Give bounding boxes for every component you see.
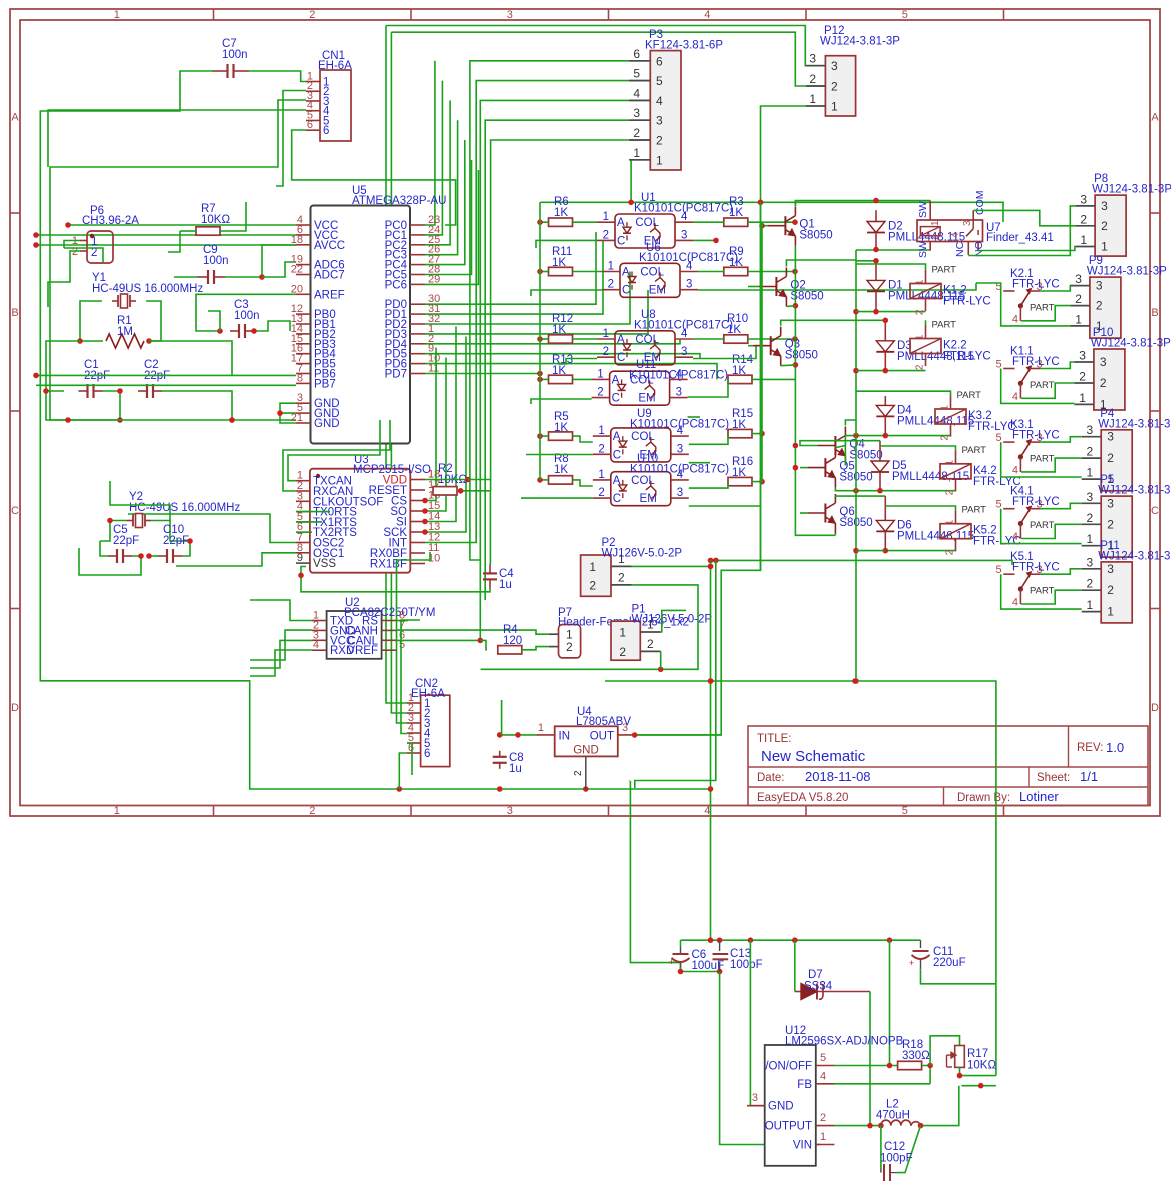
wire: [501, 700, 503, 735]
IC U3 MCP2515-I/SO: [310, 469, 410, 573]
wire: [151, 521, 190, 542]
wire: [36, 384, 296, 386]
wire: [425, 160, 472, 275]
wire: [540, 479, 549, 481]
optocoupler U1: [615, 214, 675, 248]
wire: [558, 359, 597, 365]
wire: [1001, 442, 1082, 477]
svg-text:2: 2: [603, 229, 609, 241]
svg-text:8: 8: [297, 372, 303, 384]
capacitor C10: [158, 555, 167, 557]
svg-text:3: 3: [681, 346, 687, 358]
wire: [536, 240, 597, 248]
resistor R7: [196, 227, 220, 235]
capacitor C13: [719, 940, 721, 951]
svg-text:1: 1: [831, 100, 838, 114]
svg-text:2: 2: [566, 640, 573, 654]
resistor R10: [724, 335, 748, 343]
svg-text:3: 3: [1100, 355, 1107, 369]
capacitor C9: [197, 276, 208, 278]
resistor R14: [728, 375, 752, 383]
wire: [834, 1083, 930, 1085]
svg-text:WJ124-3.81-3P: WJ124-3.81-3P: [1098, 418, 1171, 430]
svg-text:Sheet:: Sheet:: [1037, 772, 1070, 784]
svg-text:COL: COL: [631, 475, 655, 487]
svg-text:WJ124-3.81-3P: WJ124-3.81-3P: [820, 36, 900, 48]
wire: [781, 364, 796, 367]
wire: [391, 32, 407, 713]
svg-text:22pF: 22pF: [113, 535, 139, 547]
svg-text:3: 3: [809, 52, 816, 66]
svg-text:1: 1: [538, 722, 544, 734]
svg-text:1: 1: [915, 279, 926, 285]
wire: [688, 416, 700, 418]
svg-text:C: C: [617, 235, 625, 247]
wire: [254, 321, 290, 331]
svg-text:WJ124-3.81-3P: WJ124-3.81-3P: [1092, 184, 1171, 196]
svg-text:1: 1: [945, 459, 956, 465]
svg-text:2: 2: [598, 487, 604, 499]
svg-text:HC-49US 16.000MHz: HC-49US 16.000MHz: [129, 502, 240, 514]
svg-text:PMLL4448,115: PMLL4448,115: [897, 530, 974, 542]
wire: [68, 419, 296, 421]
wire: [425, 100, 450, 244]
capacitor C11: [920, 940, 922, 948]
svg-text:3: 3: [1079, 349, 1086, 363]
resistor R9: [724, 267, 748, 275]
wire: [855, 250, 857, 681]
svg-text:FB: FB: [797, 1079, 812, 1091]
wire: [835, 488, 955, 491]
wire: [64, 248, 103, 263]
wire: [225, 245, 296, 277]
wire: [396, 630, 549, 634]
wire: [856, 550, 885, 552]
svg-text:3: 3: [962, 220, 973, 226]
svg-text:1: 1: [597, 368, 603, 380]
svg-text:EH-6A: EH-6A: [318, 60, 352, 72]
svg-text:2: 2: [1100, 376, 1107, 390]
svg-text:C12: C12: [884, 1141, 905, 1153]
svg-text:AREF: AREF: [314, 289, 345, 301]
wire: [46, 391, 120, 420]
wire: [856, 249, 930, 251]
wire: [425, 120, 458, 255]
svg-text:1: 1: [1080, 233, 1087, 247]
svg-text:2: 2: [831, 80, 838, 94]
svg-text:2: 2: [309, 805, 315, 817]
wire: [689, 434, 728, 445]
wire: [800, 467, 807, 469]
wire: [978, 247, 1076, 251]
wire: [1021, 524, 1082, 538]
wire: [885, 506, 955, 510]
wire: [180, 230, 196, 232]
svg-text:1K: 1K: [729, 207, 743, 219]
wire: [752, 433, 762, 435]
wire: [526, 454, 593, 456]
wire: [632, 565, 711, 567]
capacitor C5: [108, 555, 117, 557]
wire: [880, 446, 956, 450]
wire: [491, 140, 651, 491]
svg-text:NO: NO: [973, 241, 985, 257]
wire: [794, 201, 796, 207]
wire: [1040, 362, 1074, 369]
wire: [425, 140, 465, 265]
svg-text:5: 5: [820, 1052, 826, 1064]
wire: [660, 651, 662, 669]
wire: [748, 221, 795, 223]
svg-text:2: 2: [1107, 451, 1114, 465]
svg-text:2: 2: [603, 346, 609, 358]
wire: [100, 521, 127, 542]
svg-text:10KΩ: 10KΩ: [967, 1060, 996, 1072]
wire: [522, 647, 549, 650]
svg-text:1: 1: [930, 220, 941, 226]
wire: [149, 341, 232, 375]
svg-text:1/1: 1/1: [1080, 769, 1098, 784]
resistor R1: [106, 334, 144, 348]
svg-text:FTR-LYC: FTR-LYC: [1012, 356, 1060, 368]
svg-text:1: 1: [1087, 466, 1094, 480]
svg-text:S8050: S8050: [799, 230, 832, 242]
svg-text:C: C: [1151, 505, 1159, 517]
wire: [1040, 286, 1070, 291]
wire: [401, 620, 420, 734]
relay coil K2.2: [910, 339, 941, 354]
svg-text:C: C: [11, 505, 19, 517]
wire: [856, 311, 926, 313]
crystal Y2: [127, 520, 133, 522]
wire: [681, 939, 921, 941]
svg-text:3: 3: [1107, 430, 1114, 444]
svg-text:3: 3: [656, 114, 663, 128]
svg-text:4: 4: [950, 232, 961, 238]
svg-text:10KΩ: 10KΩ: [201, 214, 230, 226]
wire: [280, 413, 296, 423]
svg-text:WJ124-3.81-3P: WJ124-3.81-3P: [1091, 338, 1171, 350]
connector CN1: [320, 70, 351, 141]
diode D7: [794, 940, 796, 991]
resistor R16: [728, 477, 752, 485]
svg-text:WJ124-3.81-3P: WJ124-3.81-3P: [1098, 485, 1171, 497]
wire: [480, 100, 650, 640]
IC U12 LM2596SX-ADJ/NOPB: [765, 1045, 816, 1166]
wire: [425, 61, 435, 225]
svg-text:3: 3: [1087, 423, 1094, 437]
wire: [834, 1065, 898, 1067]
wire: [835, 446, 845, 448]
svg-text:PART: PART: [932, 320, 957, 331]
svg-text:2: 2: [940, 435, 951, 441]
diode D4: [884, 396, 886, 405]
wire: [283, 420, 390, 491]
svg-text:K10101C(PC817C): K10101C(PC817C): [634, 320, 733, 332]
svg-text:1: 1: [1087, 598, 1094, 612]
wire: [425, 327, 456, 522]
wire: [922, 1066, 931, 1084]
svg-text:C: C: [612, 393, 620, 405]
svg-text:EH-6A: EH-6A: [411, 688, 445, 700]
svg-text:4: 4: [313, 639, 319, 651]
wire: [386, 26, 407, 704]
svg-text:2: 2: [1107, 517, 1114, 531]
capacitor C8: [499, 751, 501, 757]
transistor Q2: [775, 277, 777, 296]
wire: [720, 972, 820, 1145]
connector P4: [1101, 430, 1132, 491]
svg-text:2: 2: [915, 364, 926, 370]
wire: [425, 354, 700, 359]
relay coil K4.2: [940, 464, 971, 479]
wire: [750, 940, 764, 1105]
svg-text:FTR-LYC: FTR-LYC: [943, 351, 991, 363]
wire: [397, 552, 431, 723]
wire: [689, 462, 710, 464]
resistor R13: [549, 375, 573, 383]
svg-text:C: C: [613, 449, 621, 461]
svg-text:6: 6: [307, 119, 313, 131]
svg-text:AVCC: AVCC: [314, 240, 345, 252]
svg-text:1K: 1K: [729, 257, 743, 269]
svg-text:1: 1: [656, 153, 663, 167]
svg-text:5: 5: [902, 805, 908, 817]
wire: [292, 130, 456, 225]
resistor R5: [549, 432, 573, 440]
svg-text:3: 3: [1107, 562, 1114, 576]
connector P1: [611, 621, 640, 660]
svg-text:3: 3: [686, 279, 692, 291]
sheet border frame: [10, 9, 1160, 816]
svg-text:4: 4: [1012, 391, 1018, 403]
svg-text:2: 2: [633, 126, 640, 140]
wire: [748, 338, 795, 340]
wire: [480, 640, 487, 649]
wire: [425, 358, 446, 512]
IC U4 L7805ABV: [555, 726, 618, 756]
wire: [800, 512, 807, 514]
svg-text:R17: R17: [967, 1048, 988, 1060]
wire: [250, 650, 312, 676]
wire: [425, 170, 478, 284]
capacitor C7: [213, 70, 228, 72]
wire: [630, 781, 680, 972]
inductor L2: [881, 1120, 921, 1126]
svg-text:2: 2: [597, 387, 603, 399]
svg-text:1: 1: [603, 211, 609, 223]
wire: [605, 681, 996, 1076]
svg-text:5: 5: [902, 9, 908, 21]
svg-text:4: 4: [704, 805, 710, 817]
wire: [425, 373, 540, 375]
capacitor C3: [230, 330, 239, 332]
svg-text:CH3.96-2A: CH3.96-2A: [82, 215, 139, 227]
wire: [889, 940, 891, 1065]
svg-text:FTR-LYC: FTR-LYC: [1012, 279, 1060, 291]
diode D3: [884, 320, 886, 341]
svg-text:1K: 1K: [732, 365, 746, 377]
svg-text:1: 1: [1101, 240, 1108, 254]
svg-text:D: D: [1151, 702, 1159, 714]
svg-text:2: 2: [1096, 299, 1103, 313]
svg-text:FTR-LYC: FTR-LYC: [943, 296, 991, 308]
wire: [573, 221, 598, 223]
svg-text:1K: 1K: [552, 324, 566, 336]
wire: [521, 497, 593, 499]
wire: [748, 286, 758, 288]
svg-text:1: 1: [633, 146, 640, 160]
svg-text:1: 1: [820, 1131, 826, 1143]
svg-text:PD7: PD7: [385, 369, 407, 381]
wire: [1021, 590, 1082, 604]
wire: [1001, 369, 1075, 404]
wire: [761, 222, 763, 481]
svg-text:1K: 1K: [552, 365, 566, 377]
wire: [795, 201, 930, 207]
wire: [425, 479, 468, 481]
wire: [845, 420, 856, 426]
svg-text:3: 3: [1075, 272, 1082, 286]
wire: [425, 364, 717, 380]
svg-text:2: 2: [820, 1112, 826, 1124]
svg-text:1: 1: [940, 405, 951, 411]
svg-text:6: 6: [656, 54, 663, 68]
svg-text:4: 4: [704, 9, 710, 21]
svg-text:1: 1: [114, 805, 120, 817]
wire: [693, 221, 724, 223]
resistor R2: [433, 487, 457, 495]
svg-text:2: 2: [1079, 370, 1086, 384]
wire: [48, 251, 80, 307]
svg-text:3: 3: [677, 487, 683, 499]
svg-text:1: 1: [114, 9, 120, 21]
svg-text:KF124-3.81-6P: KF124-3.81-6P: [645, 40, 723, 52]
svg-text:S8050: S8050: [785, 350, 818, 362]
resistor R8: [549, 476, 573, 484]
svg-text:EasyEDA V5.8.20: EasyEDA V5.8.20: [757, 792, 848, 804]
svg-text:WJ126V-5.0-2P: WJ126V-5.0-2P: [632, 614, 713, 626]
svg-text:3: 3: [507, 9, 513, 21]
resistor R6: [549, 218, 573, 226]
wire: [196, 294, 296, 331]
wire: [50, 100, 306, 420]
svg-text:470uH: 470uH: [876, 1110, 910, 1122]
resistor R15: [728, 429, 752, 437]
svg-text:FTR-LYC: FTR-LYC: [1012, 562, 1060, 574]
optocoupler U11: [610, 371, 670, 405]
svg-text:REV:: REV:: [1077, 742, 1103, 754]
connector P3: [650, 51, 681, 170]
relay U7 Finder_43.41: [917, 220, 983, 242]
wire: [973, 210, 1075, 225]
svg-text:2: 2: [945, 549, 956, 555]
wire: [834, 1125, 881, 1127]
wire: [301, 567, 490, 592]
wire: [386, 26, 825, 66]
svg-text:PCA82C250T/YM: PCA82C250T/YM: [344, 607, 435, 619]
wire: [250, 630, 312, 660]
wire: [800, 441, 880, 446]
wire: [149, 555, 158, 557]
svg-text:120: 120: [503, 635, 522, 647]
wire: [531, 399, 592, 404]
optocoupler U6: [620, 263, 680, 297]
wire: [689, 505, 761, 507]
wire: [396, 620, 408, 622]
svg-text:1: 1: [603, 328, 609, 340]
wire: [1001, 291, 1071, 326]
svg-text:2: 2: [1087, 445, 1094, 459]
wire: [885, 550, 955, 552]
connector P11: [1101, 562, 1132, 623]
wire: [930, 1036, 959, 1066]
wire: [573, 338, 598, 340]
svg-text:PART: PART: [962, 505, 987, 516]
svg-text:PART: PART: [957, 390, 982, 401]
wire: [634, 734, 722, 736]
connector P9: [1090, 277, 1121, 338]
svg-text:ATMEGA328P-AU: ATMEGA328P-AU: [352, 195, 446, 207]
transistor Q6: [824, 504, 826, 523]
wire: [681, 971, 720, 973]
wire: [752, 378, 795, 380]
wire: [786, 305, 795, 308]
wire: [748, 271, 795, 273]
wire: [220, 202, 246, 231]
svg-text:WJ124-3.81-3P: WJ124-3.81-3P: [1087, 266, 1167, 278]
svg-text:3: 3: [676, 387, 682, 399]
wire: [795, 246, 835, 536]
wire: [36, 234, 296, 236]
svg-text:FTR-LYC: FTR-LYC: [1012, 496, 1060, 508]
svg-text:2: 2: [608, 279, 614, 291]
resistor R18: [898, 1061, 922, 1069]
wire: [897, 1126, 921, 1173]
svg-text:1: 1: [589, 560, 596, 574]
wire: [296, 521, 322, 523]
svg-text:2: 2: [809, 72, 816, 86]
svg-text:4: 4: [1012, 531, 1018, 543]
diode D6: [884, 496, 886, 520]
wire: [48, 110, 306, 167]
svg-text:1K: 1K: [554, 207, 568, 219]
svg-text:1K: 1K: [554, 422, 568, 434]
wire: [425, 540, 476, 543]
svg-text:FTR-LYC: FTR-LYC: [1012, 430, 1060, 442]
wire: [470, 61, 650, 560]
svg-text:SW: SW: [917, 201, 929, 218]
svg-text:5: 5: [656, 74, 663, 88]
wire: [250, 640, 312, 668]
svg-text:1M: 1M: [117, 326, 133, 338]
wire: [250, 600, 312, 621]
wire: [1001, 509, 1082, 544]
svg-text:OUT: OUT: [590, 731, 614, 743]
wire: [635, 106, 806, 735]
wire: [46, 341, 80, 391]
svg-text:1K: 1K: [732, 467, 746, 479]
svg-text:COL: COL: [631, 431, 655, 443]
svg-text:1: 1: [809, 92, 816, 106]
svg-text:+: +: [669, 957, 674, 967]
svg-text:100n: 100n: [222, 49, 248, 61]
wire: [296, 531, 312, 533]
svg-text:1: 1: [598, 469, 604, 481]
wire: [1001, 574, 1082, 609]
svg-text:COL: COL: [640, 267, 664, 279]
svg-text:D: D: [11, 702, 19, 714]
